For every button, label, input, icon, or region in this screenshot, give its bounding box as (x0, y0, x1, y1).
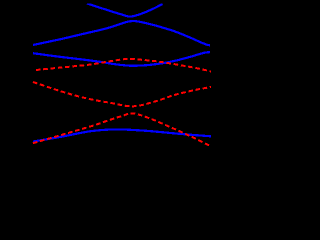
chart: energy-level anticrossing diagram, blue solid and red dashed curves on black (0, 0, 217, 175)
blue curve B: bottom band arc (33, 129, 211, 141)
blue curve L: rises from left edge, max under U, descends to right edge (33, 21, 210, 45)
red curve R3: dashed, rises to mid hump then descends to bottom-right (33, 113, 210, 145)
red curve R1: shallow dashed arc, crosses blue M twice (36, 59, 211, 72)
blue curve M: middle band with shallow dip (33, 52, 210, 66)
blue curve U: upper branch of top anticrossing (87, 4, 163, 17)
red curve R2: dashed, dips mid then rises to right edge (33, 82, 211, 106)
